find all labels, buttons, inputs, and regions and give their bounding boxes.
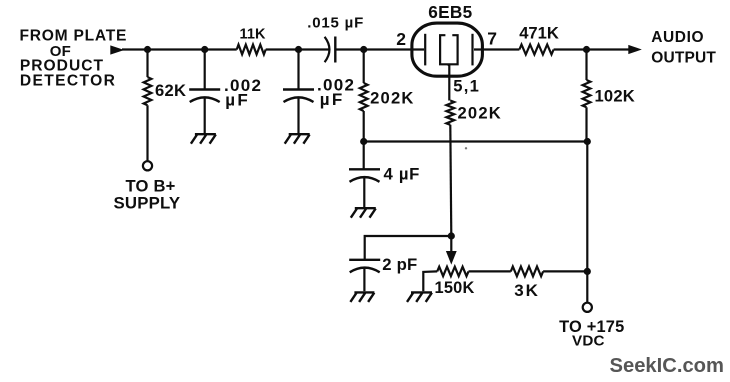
- svg-text:5,1: 5,1: [453, 76, 480, 95]
- svg-text:4 µF: 4 µF: [384, 164, 421, 183]
- svg-text:µF: µF: [225, 90, 250, 109]
- svg-text:SUPPLY: SUPPLY: [114, 194, 181, 213]
- svg-text:2: 2: [396, 29, 406, 49]
- svg-text:7: 7: [487, 29, 497, 49]
- svg-text:OUTPUT: OUTPUT: [651, 50, 716, 67]
- svg-text:SeekIC.com: SeekIC.com: [610, 355, 724, 377]
- svg-text:DETECTOR: DETECTOR: [20, 72, 116, 89]
- svg-text:202K: 202K: [458, 103, 502, 122]
- svg-text:11K: 11K: [240, 27, 267, 43]
- svg-text:.015 µF: .015 µF: [307, 15, 364, 32]
- svg-text:FROM PLATE: FROM PLATE: [20, 27, 128, 44]
- svg-text:6EB5: 6EB5: [428, 2, 472, 22]
- svg-text:471K: 471K: [519, 24, 559, 43]
- svg-text:VDC: VDC: [572, 332, 605, 349]
- svg-text:AUDIO: AUDIO: [651, 29, 704, 46]
- svg-text:µF: µF: [320, 90, 345, 109]
- svg-text:2 pF: 2 pF: [382, 255, 417, 274]
- svg-text:62K: 62K: [155, 81, 186, 100]
- svg-text:202K: 202K: [370, 89, 414, 108]
- svg-text:102K: 102K: [595, 87, 635, 106]
- svg-text:150K: 150K: [435, 279, 475, 297]
- svg-text:3K: 3K: [514, 281, 540, 300]
